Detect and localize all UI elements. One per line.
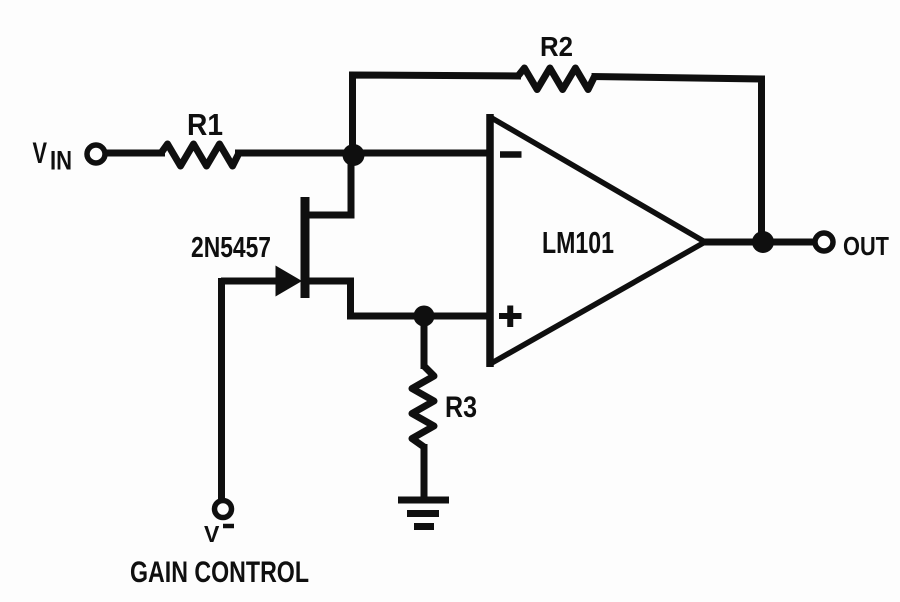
- svg-text:V: V: [33, 137, 48, 170]
- svg-text:R3: R3: [445, 391, 477, 424]
- svg-text:LM101: LM101: [542, 225, 614, 260]
- svg-text:IN: IN: [50, 146, 72, 176]
- svg-text:R2: R2: [540, 31, 573, 62]
- svg-text:R1: R1: [187, 107, 223, 142]
- svg-text:GAIN CONTROL: GAIN CONTROL: [130, 556, 309, 589]
- svg-text:V: V: [204, 521, 220, 547]
- svg-text:OUT: OUT: [843, 231, 889, 261]
- svg-text:2N5457: 2N5457: [191, 232, 271, 264]
